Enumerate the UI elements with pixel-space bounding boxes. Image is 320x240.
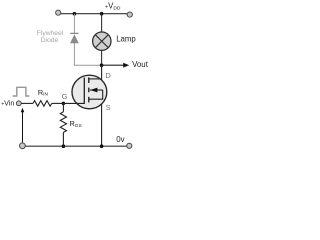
wire gate junction to RGS bbox=[62, 103, 64, 111]
gate junction node bbox=[62, 102, 66, 106]
wire RGS to bottom rail bbox=[62, 132, 64, 146]
Vout arrow wire bbox=[102, 64, 124, 66]
junction node top lamp bbox=[100, 12, 104, 16]
MOSFET gate bar bbox=[83, 78, 85, 104]
input source arrowhead bbox=[21, 108, 25, 112]
input pulse symbol bbox=[13, 87, 30, 96]
wire Vin to RIN bbox=[21, 102, 33, 104]
MOSFET channel dashes bbox=[88, 77, 90, 102]
resistor RGS bbox=[60, 112, 66, 133]
gate wire bbox=[63, 102, 84, 104]
MOSFET body arrow bbox=[90, 88, 103, 93]
drain wire bbox=[101, 65, 103, 80]
supply terminal top-left bbox=[56, 10, 61, 15]
bottom rail wire bbox=[25, 145, 126, 147]
Vout arrowhead bbox=[123, 63, 129, 68]
lamp wire upper bbox=[101, 14, 103, 33]
svg-text:0v: 0v bbox=[116, 135, 124, 144]
top rail wire bbox=[60, 13, 126, 15]
+Vin terminal bbox=[16, 101, 21, 106]
ground terminal bottom-left bbox=[20, 143, 26, 149]
wire RIN to gate junction bbox=[52, 102, 64, 104]
flywheel diode wire upper bbox=[73, 14, 75, 34]
svg-text:+Vin: +Vin bbox=[1, 99, 14, 108]
0v terminal bbox=[127, 143, 132, 148]
RGS junction node bottom bbox=[62, 144, 66, 148]
MOSFET source lead internal bbox=[89, 90, 103, 99]
lamp LP1 bbox=[93, 32, 111, 50]
source wire bbox=[101, 104, 103, 146]
+VDD terminal stub bbox=[126, 13, 128, 16]
svg-text:D: D bbox=[105, 71, 110, 80]
flywheel diode D1 bbox=[70, 33, 79, 43]
junction node top diode bbox=[73, 12, 77, 16]
MOSFET drain lead internal bbox=[89, 78, 100, 80]
flywheel diode wire lower bbox=[74, 43, 101, 65]
svg-text:Diode: Diode bbox=[41, 37, 59, 44]
MOSFET Q1 body circle bbox=[72, 75, 107, 109]
svg-text:Vout: Vout bbox=[132, 60, 149, 69]
drain node junction bbox=[100, 63, 104, 67]
+VDD terminal bbox=[127, 12, 132, 17]
resistor RIN bbox=[33, 101, 52, 107]
lamp wire lower bbox=[101, 50, 103, 65]
svg-text:G: G bbox=[62, 92, 68, 101]
source junction node bottom bbox=[100, 144, 104, 148]
input source arrow wire bbox=[22, 111, 24, 142]
svg-text:S: S bbox=[106, 103, 111, 112]
svg-text:Lamp: Lamp bbox=[116, 35, 136, 44]
